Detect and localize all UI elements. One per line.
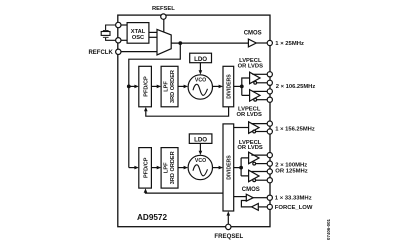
PFD/CP2 bbox=[139, 148, 152, 189]
pin 106.25 P1 bbox=[267, 72, 272, 77]
svg-text:CMOS: CMOS bbox=[242, 187, 260, 193]
svg-text:LPF3RD ORDER: LPF3RD ORDER bbox=[164, 151, 176, 184]
wire XTAL_B to XTAL OSC bbox=[121, 39, 127, 41]
junction PLL1 input bbox=[127, 85, 131, 89]
wire into PFD/CP2 bbox=[129, 167, 135, 169]
LPF2 3rd order bbox=[161, 148, 178, 189]
svg-text:LDO: LDO bbox=[194, 56, 207, 63]
wire buffer to pin 25MHz bbox=[256, 42, 267, 44]
PFD/CP1 bbox=[139, 66, 152, 107]
buffer 100/125 B bbox=[249, 170, 268, 182]
svg-text:PFD/CP: PFD/CP bbox=[143, 76, 149, 97]
svg-text:1 × 156.25MHz: 1 × 156.25MHz bbox=[275, 126, 315, 132]
svg-text:1 × 33.33MHz: 1 × 33.33MHz bbox=[275, 196, 312, 202]
pin 156.25 P bbox=[267, 121, 272, 126]
svg-text:FORCE_LOW: FORCE_LOW bbox=[275, 205, 313, 211]
pin FREQSEL bbox=[226, 224, 231, 229]
FORCE_LOW inverter bbox=[252, 204, 259, 211]
pin XTAL_A bbox=[116, 22, 121, 27]
svg-text:07406-001: 07406-001 bbox=[326, 218, 331, 240]
svg-text:LPF3RD ORDER: LPF3RD ORDER bbox=[164, 70, 176, 103]
XTAL OSC block bbox=[127, 23, 149, 44]
feedback wire PLL2 bbox=[146, 192, 224, 193]
wire inverter to CMOS buffer enable bbox=[241, 201, 251, 207]
wire mux output to CMOS buffer bbox=[171, 42, 248, 44]
junction output group1 bbox=[240, 85, 244, 89]
wire DIVIDERS2 output group3 bbox=[234, 167, 241, 169]
svg-text:CMOS: CMOS bbox=[244, 31, 262, 37]
pin 100/125 N1 bbox=[267, 161, 272, 166]
wire pin to inverter bbox=[258, 206, 267, 208]
DIVIDERS2 bbox=[223, 124, 234, 211]
wire XTAL_A to XTAL OSC bbox=[121, 24, 127, 26]
buffer 100/125 A bbox=[249, 152, 268, 165]
wire into PFD/CP1 bbox=[129, 85, 135, 87]
watermark figure number bbox=[326, 218, 331, 240]
pin 100/125 P1 bbox=[267, 153, 272, 158]
svg-text:OSC: OSC bbox=[132, 35, 144, 41]
junction reference distribution bbox=[178, 41, 182, 45]
wire split group3 bbox=[241, 158, 249, 176]
wire PFD1 to LPF1 bbox=[151, 85, 157, 87]
wire REFCLK to mux bbox=[121, 51, 157, 53]
wire XTAL OSC to mux (upper) bbox=[149, 31, 157, 33]
pin 25MHz output bbox=[267, 40, 272, 45]
svg-text:DIVIDERS: DIVIDERS bbox=[226, 74, 232, 99]
DIVIDERS1 bbox=[223, 66, 234, 107]
pin 100/125 P2 bbox=[267, 169, 272, 174]
wire LDO2 to VCO2 bbox=[199, 143, 201, 151]
svg-text:AD9572: AD9572 bbox=[137, 213, 167, 222]
svg-text:OR 125MHz: OR 125MHz bbox=[275, 168, 307, 174]
svg-text:REFCLK: REFCLK bbox=[88, 50, 113, 56]
svg-text:LDO: LDO bbox=[194, 137, 207, 144]
wire XTAL OSC to mux (lower) bbox=[149, 36, 157, 38]
wire LDO1 to VCO1 bbox=[199, 63, 201, 71]
wire LPF2 to VCO2 bbox=[178, 167, 184, 169]
pin REFSEL bbox=[161, 14, 166, 19]
LDO1 bbox=[190, 53, 212, 63]
svg-text:OR LVDS: OR LVDS bbox=[237, 145, 262, 151]
VCO1 bbox=[188, 75, 212, 99]
pin XTAL_B bbox=[116, 38, 121, 43]
VCO2 bbox=[188, 155, 212, 179]
wire DIVIDERS1 output bbox=[234, 85, 242, 87]
buffer 106.25 B bbox=[250, 90, 268, 102]
wire DIVIDERS2 to buffer 156.25 bbox=[234, 127, 249, 129]
pin 106.25 P2 bbox=[267, 89, 272, 94]
wire DIVIDERS2 to CMOS buffer bbox=[234, 196, 247, 198]
pin 156.25 N bbox=[267, 129, 272, 134]
pin REFCLK bbox=[116, 49, 121, 54]
svg-text:OR LVDS: OR LVDS bbox=[237, 112, 262, 118]
wire LPF1 to VCO1 bbox=[178, 85, 184, 87]
wire buffer to pin 33.33 bbox=[253, 197, 267, 199]
svg-text:PFD/CP: PFD/CP bbox=[143, 157, 149, 178]
svg-text:OR LVDS: OR LVDS bbox=[238, 64, 263, 70]
pin FORCE_LOW bbox=[267, 204, 272, 209]
pin 106.25 N2 bbox=[267, 97, 272, 102]
svg-text:XTAL: XTAL bbox=[131, 29, 146, 35]
wire PFD2 to LPF2 bbox=[151, 167, 157, 169]
junction output group3 bbox=[239, 166, 243, 170]
svg-text:1 × 25MHz: 1 × 25MHz bbox=[275, 41, 304, 47]
wire FREQSEL to DIVIDERS2 bbox=[227, 215, 229, 224]
CMOS buffer 33.33MHz bbox=[246, 194, 253, 201]
LDO2 bbox=[189, 134, 212, 144]
svg-text:2 × 106.25MHz: 2 × 106.25MHz bbox=[276, 84, 316, 90]
LPF1 3rd order bbox=[161, 66, 178, 107]
buffer 156.25 bbox=[249, 122, 268, 134]
crystal Y1 bbox=[101, 25, 116, 40]
feedback wire PLL1 bbox=[146, 107, 229, 116]
svg-text:VCO: VCO bbox=[195, 78, 206, 84]
CMOS buffer 25MHz bbox=[248, 39, 256, 47]
svg-text:FREQSEL: FREQSEL bbox=[214, 233, 243, 240]
svg-text:REFSEL: REFSEL bbox=[152, 6, 175, 12]
buffer 106.25 A bbox=[250, 72, 268, 84]
wire VCO2 to DIVIDERS2 bbox=[213, 167, 220, 169]
svg-text:VCO: VCO bbox=[195, 158, 206, 164]
svg-text:DIVIDERS: DIVIDERS bbox=[226, 155, 232, 180]
wire VCO1 to DIVIDERS1 bbox=[213, 85, 220, 87]
wire distribution trunk bbox=[129, 43, 181, 168]
wire split to buffers group1 bbox=[242, 78, 250, 95]
wire REFSEL to mux select bbox=[163, 19, 165, 32]
pin 106.25 N1 bbox=[267, 80, 272, 85]
chip boundary AD9572 bbox=[118, 15, 270, 227]
pin 100/125 N2 bbox=[267, 178, 272, 183]
reference mux bbox=[157, 29, 171, 55]
pin 33.33MHz output bbox=[267, 195, 272, 200]
